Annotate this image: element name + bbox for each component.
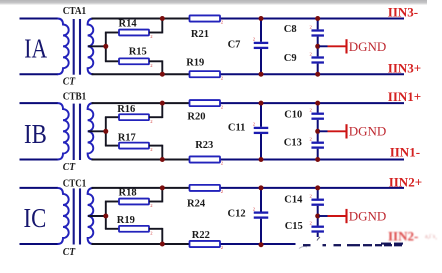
svg-text:C12: C12 bbox=[228, 209, 246, 220]
node center tap bbox=[103, 129, 108, 134]
svg-text:CT: CT bbox=[63, 77, 76, 88]
node cap2 bottom bbox=[315, 157, 320, 162]
wire left lead top IA bbox=[20, 18, 59, 20]
svg-text:IA: IA bbox=[24, 34, 47, 64]
wire center tap CTB1 bbox=[88, 130, 106, 132]
svg-text:C7: C7 bbox=[228, 40, 241, 51]
transformer CTB1 primary winding bbox=[58, 103, 69, 159]
resistor R19 bbox=[190, 71, 221, 77]
capacitor C11 bbox=[254, 103, 269, 159]
node bottom junction bbox=[160, 72, 165, 77]
resistor R19 bbox=[119, 226, 149, 232]
capacitor C14 bbox=[311, 188, 324, 216]
top gray band bbox=[0, 0, 427, 5]
node top junction bbox=[160, 16, 165, 21]
resistor R16 bbox=[119, 114, 149, 120]
svg-text:CT: CT bbox=[63, 162, 76, 173]
wire bracket to lower resistor bbox=[105, 228, 119, 230]
svg-text:IIN1+: IIN1+ bbox=[388, 89, 421, 104]
transformer CTA1 secondary winding bbox=[88, 19, 94, 75]
wire tap bracket vertical bbox=[105, 117, 107, 145]
wire left lead bottom IB bbox=[20, 159, 59, 161]
capacitor C12 bbox=[254, 188, 269, 245]
wire top bus IC bbox=[92, 187, 192, 189]
node center tap bbox=[103, 214, 108, 219]
svg-text:R19: R19 bbox=[186, 58, 204, 69]
node cap1 bottom bbox=[259, 157, 264, 162]
svg-text:CT: CT bbox=[63, 247, 76, 258]
wire R17 to bottom bus bbox=[149, 145, 162, 147]
wire bracket to upper resistor bbox=[105, 116, 119, 118]
wire to DGND bbox=[319, 130, 327, 132]
wire tap bracket vertical bbox=[105, 33, 107, 62]
wire bracket to upper resistor bbox=[105, 32, 119, 34]
svg-text:IIN3+: IIN3+ bbox=[388, 61, 421, 76]
node cap1 bottom bbox=[259, 242, 264, 247]
wire R16 to top bus bbox=[149, 116, 162, 118]
svg-text:C10: C10 bbox=[284, 110, 302, 121]
transformer CTC1 core bbox=[73, 188, 75, 244]
resistor R20 bbox=[190, 100, 221, 106]
wire tap bracket vertical bbox=[105, 202, 107, 229]
node top junction bbox=[160, 185, 165, 190]
svg-text:C13: C13 bbox=[284, 137, 302, 148]
node cap2 top bbox=[315, 185, 320, 190]
svg-text:C9: C9 bbox=[284, 53, 297, 64]
transformer CTB1 core bbox=[73, 104, 75, 160]
svg-text:CTC1: CTC1 bbox=[63, 178, 86, 189]
transformer CTA1 core bbox=[73, 19, 75, 75]
resistor R14 bbox=[119, 30, 149, 36]
capacitor C9 bbox=[311, 46, 324, 74]
resistor R18 bbox=[119, 199, 149, 205]
svg-text:R19: R19 bbox=[117, 215, 135, 226]
wire left lead top IC bbox=[20, 187, 59, 189]
svg-text:C14: C14 bbox=[284, 194, 303, 205]
node cap1 top bbox=[259, 101, 264, 106]
node cap2 top bbox=[315, 101, 320, 106]
svg-text:R20: R20 bbox=[187, 112, 205, 123]
svg-text:CTB1: CTB1 bbox=[63, 91, 86, 102]
watermark tick bbox=[317, 237, 320, 241]
resistor R21 bbox=[190, 15, 221, 21]
svg-text:IC: IC bbox=[24, 203, 47, 233]
power DGND bbox=[328, 208, 387, 223]
resistor R15 bbox=[119, 58, 149, 64]
svg-text:R24: R24 bbox=[187, 198, 206, 209]
wire top bus IB bbox=[92, 102, 192, 104]
wire left lead bottom IA bbox=[20, 73, 59, 75]
wire to DGND bbox=[319, 45, 327, 47]
resistor R22 bbox=[190, 241, 221, 247]
node cap2 bottom bbox=[315, 72, 320, 77]
wire left lead bottom IC bbox=[20, 243, 59, 245]
power DGND bbox=[328, 39, 387, 54]
resistor R24 bbox=[190, 185, 221, 191]
node cap2 top bbox=[315, 16, 320, 21]
wire center tap CTC1 bbox=[88, 215, 106, 217]
capacitor C8 bbox=[311, 19, 324, 47]
capacitor C10 bbox=[311, 103, 324, 131]
node cap2 mid bbox=[315, 129, 320, 134]
wire bottom bus IA bbox=[92, 73, 192, 75]
svg-text:IIN2+: IIN2+ bbox=[389, 174, 422, 189]
svg-text:R22: R22 bbox=[192, 230, 210, 241]
power DGND bbox=[328, 124, 387, 139]
node cap2 mid bbox=[315, 44, 320, 49]
svg-text:DGND: DGND bbox=[349, 208, 387, 223]
wire bracket to lower resistor bbox=[105, 145, 119, 147]
transformer CTC1 primary winding bbox=[58, 188, 69, 244]
node bottom junction bbox=[160, 242, 165, 247]
wire top bus IA bbox=[92, 18, 192, 20]
capacitor C7 bbox=[254, 19, 269, 75]
svg-text:R17: R17 bbox=[118, 132, 136, 143]
svg-text:C11: C11 bbox=[228, 123, 246, 134]
resistor R23 bbox=[190, 156, 221, 162]
svg-text:IB: IB bbox=[24, 119, 47, 149]
wire to DGND bbox=[319, 215, 327, 217]
svg-text:R18: R18 bbox=[119, 187, 137, 198]
svg-text:DGND: DGND bbox=[349, 39, 387, 54]
wire bottom bus IB bbox=[92, 159, 192, 161]
svg-text:R16: R16 bbox=[117, 104, 135, 115]
wire bracket to lower resistor bbox=[105, 60, 119, 62]
node bottom junction bbox=[160, 157, 165, 162]
node cap1 top bbox=[259, 16, 264, 21]
node cap2 mid bbox=[315, 214, 320, 219]
transformer CTC1 secondary winding bbox=[88, 188, 94, 244]
svg-text:R14: R14 bbox=[119, 18, 138, 29]
wire R14 to top bus bbox=[149, 32, 162, 34]
svg-text:C8: C8 bbox=[284, 24, 297, 35]
svg-text:IIN1-: IIN1- bbox=[390, 145, 420, 160]
transformer CTB1 secondary winding bbox=[88, 103, 94, 159]
svg-text:C15: C15 bbox=[285, 221, 303, 232]
svg-text:a,iˆs¸: a,iˆs¸ bbox=[425, 234, 437, 240]
wire left lead top IB bbox=[20, 102, 59, 104]
node top junction bbox=[160, 101, 165, 106]
node cap1 top bbox=[259, 185, 264, 190]
svg-text:R15: R15 bbox=[129, 46, 147, 57]
node center tap bbox=[103, 44, 108, 49]
wire bottom bus IC bbox=[92, 243, 192, 245]
svg-text:IIN2-: IIN2- bbox=[388, 229, 418, 244]
wire bracket to upper resistor bbox=[105, 201, 119, 203]
wire R15 to bottom bus bbox=[149, 60, 162, 62]
resistor R17 bbox=[119, 143, 149, 149]
transformer CTA1 primary winding bbox=[58, 19, 69, 75]
capacitor C15 bbox=[311, 216, 324, 237]
svg-text:R23: R23 bbox=[195, 140, 213, 151]
svg-text:DGND: DGND bbox=[349, 124, 387, 139]
node cap1 bottom bbox=[259, 72, 264, 77]
capacitor C13 bbox=[311, 131, 324, 159]
wire bottom bus IC dashed (watermark) bbox=[303, 244, 311, 246]
wire center tap CTA1 bbox=[88, 45, 106, 47]
svg-text:CTA1: CTA1 bbox=[63, 6, 86, 17]
wire R18 to top bus bbox=[149, 201, 162, 203]
wire R19 to bottom bus bbox=[149, 228, 162, 230]
svg-text:R21: R21 bbox=[191, 29, 209, 40]
watermark squiggle bbox=[299, 247, 307, 249]
svg-text:IIN3-: IIN3- bbox=[388, 5, 418, 20]
